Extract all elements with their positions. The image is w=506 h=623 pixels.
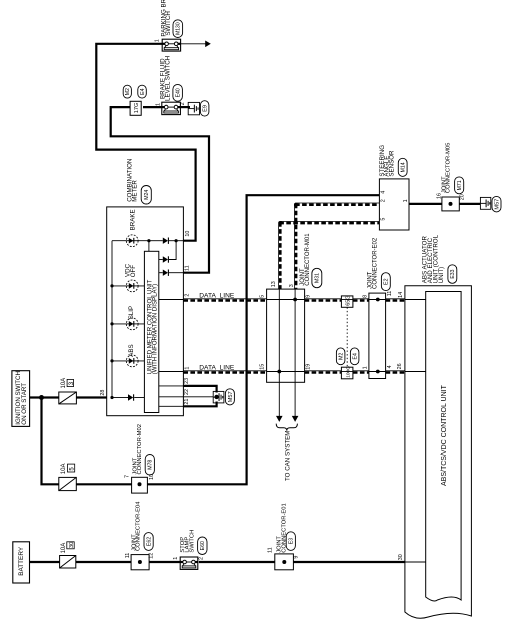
wire E62 to stop lamp switch (149, 561, 180, 563)
data line corner pin 2 branch (294, 203, 297, 206)
battery box (13, 542, 30, 583)
combination meter box (107, 207, 184, 416)
wire meter pin 22 to ground M57 (183, 396, 213, 398)
svg-text:1: 1 (184, 367, 190, 370)
svg-text:TO CAN SYSTEM: TO CAN SYSTEM (284, 431, 291, 481)
oval M78 (145, 455, 154, 476)
ground M57 (steering) (480, 197, 490, 209)
svg-text:9: 9 (306, 295, 312, 298)
svg-text:4: 4 (381, 191, 387, 194)
wire lamp bus vertical (111, 241, 113, 398)
node pin28 bus (110, 396, 113, 399)
svg-text:22: 22 (184, 389, 190, 395)
wire pin 1 inner box to meter edge (159, 371, 184, 373)
svg-text:13: 13 (271, 281, 277, 287)
svg-text:10A: 10A (61, 543, 67, 554)
svg-text:M57: M57 (495, 199, 501, 210)
wire battery to fuse 30 (30, 561, 60, 563)
data line CAN-L E02 to ABS pin 26 (386, 370, 405, 372)
svg-text:9: 9 (294, 556, 300, 559)
connector 17G (130, 101, 141, 115)
lamp SLIP (126, 318, 138, 330)
data line corner pin 5 branch (279, 221, 282, 224)
oval M57 (meter) (225, 389, 234, 405)
wire pin 28 with diode into inner box (112, 397, 128, 399)
svg-text:23: 23 (184, 378, 190, 384)
dotted pair link 65G-100G (346, 307, 348, 367)
node CAN-H at M01 (293, 298, 297, 302)
svg-text:M24: M24 (144, 190, 150, 200)
svg-text:CONNECTOR-E02: CONNECTOR-E02 (372, 237, 378, 289)
svg-text:17G: 17G (134, 103, 140, 114)
svg-text:1: 1 (155, 39, 161, 42)
wire brake fluid level switch pin 2 to ground E9 (180, 106, 190, 108)
svg-text:E2: E2 (384, 278, 390, 284)
oval M24 (141, 186, 151, 205)
connector 100G (341, 367, 353, 379)
svg-text:2: 2 (199, 557, 205, 560)
svg-text:11: 11 (125, 553, 131, 559)
wire brake fluid level switch pin 1 to 17G (143, 106, 162, 108)
svg-text:SWITCH: SWITCH (165, 11, 172, 35)
wire CAN branch 13 through M01 to arrow (278, 289, 280, 382)
wire ignition branch down to fuse 5 to joint connector M78 (42, 398, 59, 485)
oval M2 (17G) (123, 85, 131, 98)
wire ignition switch to fuse 3 to meter pin 28 (30, 396, 59, 398)
wire pin 23 inner box to meter edge (159, 385, 184, 387)
svg-text:DATA LINE: DATA LINE (199, 364, 235, 371)
data line sensor pin 5 branch (279, 220, 379, 222)
svg-text:1: 1 (363, 366, 369, 369)
ignition switch box (12, 371, 30, 427)
wire parking brake switch to combination meter pin 10 (96, 44, 195, 241)
wire M71 to ground M57 (459, 203, 480, 205)
wire pin 2 inner box to meter edge (159, 299, 184, 301)
svg-text:UNIT): UNIT) (438, 267, 445, 284)
oval M71 (455, 177, 464, 194)
svg-text:SENSOR: SENSOR (388, 150, 395, 177)
svg-text:2: 2 (184, 294, 190, 297)
svg-text:30: 30 (69, 542, 75, 548)
data line CAN-H M01 to 65G (305, 298, 342, 300)
svg-text:ABS: ABS (128, 344, 135, 356)
ABS actuator outer box (405, 286, 472, 618)
svg-text:5: 5 (381, 218, 387, 221)
wire brake lamp to pin 10 with diode (149, 240, 163, 242)
svg-text:BATTERY: BATTERY (18, 546, 25, 576)
oval E2 (381, 273, 390, 291)
fuse 10A 30 (60, 556, 76, 569)
svg-text:11: 11 (387, 291, 393, 297)
svg-text:20: 20 (460, 194, 466, 200)
svg-text:M14: M14 (401, 162, 407, 172)
brake fluid level switch (162, 102, 181, 114)
svg-text:SLIP: SLIP (128, 306, 135, 319)
diode row 2 to pin 10 (159, 259, 163, 261)
oval E3 (286, 532, 295, 551)
wire CAN branch through M01 to arrow (294, 289, 296, 382)
ground E9 (188, 102, 199, 114)
data line sensor pin 2 branch (295, 202, 379, 204)
svg-text:CONNECTOR-M02: CONNECTOR-M02 (137, 424, 143, 474)
joint connector M01 box (267, 289, 305, 382)
svg-text:E60: E60 (200, 541, 206, 550)
svg-text:11: 11 (184, 265, 190, 271)
svg-text:7: 7 (125, 475, 131, 478)
node diode junction right (175, 239, 178, 242)
wire M78 to steering angle sensor pin 4 (147, 195, 379, 484)
svg-text:ON OR START: ON OR START (21, 383, 28, 425)
svg-text:26: 26 (397, 363, 403, 369)
svg-text:LEVEL SWITCH: LEVEL SWITCH (165, 56, 172, 101)
wire 17G to combination meter pin 11 (111, 107, 209, 273)
svg-text:10: 10 (185, 231, 191, 237)
node slip bus (110, 322, 113, 325)
svg-text:M57: M57 (228, 391, 234, 402)
wire pin 22 inner box to meter edge (159, 396, 184, 398)
wire slip lamp row (112, 323, 144, 325)
svg-text:12: 12 (149, 553, 155, 559)
svg-text:11: 11 (268, 547, 274, 553)
connector 65G (341, 296, 353, 307)
svg-text:65G: 65G (346, 295, 352, 305)
wire fuse 30 to joint connector E62 (76, 561, 131, 563)
svg-text:4: 4 (387, 365, 393, 368)
svg-text:SWITCH: SWITCH (189, 530, 195, 553)
joint connector M05 box (442, 197, 459, 211)
data line CAN-L inside 100G (341, 371, 353, 373)
svg-text:BRAKE: BRAKE (129, 209, 136, 230)
svg-text:METER: METER (132, 180, 139, 202)
wire brake lamp row (112, 240, 149, 242)
parking brake switch (162, 39, 180, 51)
svg-text:M2: M2 (125, 88, 131, 95)
ground symbol (parking brake switch) (205, 41, 211, 48)
svg-text:E9: E9 (203, 105, 209, 112)
oval M2 (100G) (336, 348, 345, 365)
fuse 10A 3 (59, 392, 77, 404)
lamp BRAKE (126, 235, 138, 247)
svg-text:10A: 10A (61, 378, 67, 389)
svg-text:10: 10 (149, 474, 155, 480)
data line CAN-L M01 to 100G (305, 370, 342, 372)
oval E9 (200, 101, 209, 116)
node vdc bus (110, 284, 113, 287)
svg-text:E40: E40 (176, 88, 182, 97)
arrow to CAN system right (292, 416, 299, 422)
svg-text:8: 8 (363, 295, 369, 298)
stop lamp switch (180, 557, 198, 569)
node diode junction left (147, 239, 150, 242)
node ignition branch (39, 395, 44, 400)
data line CAN-H inside 65G (341, 299, 353, 301)
oval E4 (17G) (138, 85, 147, 98)
ABS inner control unit box (426, 292, 461, 602)
svg-text:10A: 10A (61, 464, 67, 475)
data line CAN-L inside E02 (369, 371, 386, 373)
svg-text:E4: E4 (140, 88, 146, 94)
svg-text:14: 14 (398, 292, 404, 298)
wire pin 30 inside ABS actuator (405, 561, 426, 563)
svg-text:3: 3 (289, 284, 295, 287)
svg-text:2: 2 (180, 102, 186, 105)
brace TO CAN SYSTEM (276, 424, 297, 431)
wire pin 14 inside ABS actuator (405, 299, 426, 301)
oval E62 (144, 533, 153, 551)
data line CAN-H 65G to E02 (353, 298, 369, 300)
node abs bus (110, 359, 113, 362)
svg-text:CONNECTOR-M01: CONNECTOR-M01 (305, 233, 311, 286)
svg-text:21: 21 (184, 399, 190, 405)
svg-text:30: 30 (398, 554, 404, 560)
svg-text:1: 1 (156, 103, 162, 106)
unified meter control unit box (144, 251, 158, 412)
wire junction to inner box top (148, 241, 150, 252)
svg-text:16: 16 (437, 193, 443, 199)
svg-text:19: 19 (306, 364, 312, 370)
oval M31 (312, 268, 322, 287)
lamp VDC OFF (126, 280, 138, 292)
svg-text:1: 1 (403, 199, 409, 202)
svg-text:M130: M130 (176, 22, 182, 35)
data line CAN-H inside E02 (369, 299, 386, 301)
fuse 10A 5 (59, 477, 77, 490)
svg-text:28: 28 (100, 390, 106, 396)
data line CAN-L inside M01 (267, 371, 305, 373)
svg-text:M78: M78 (148, 460, 154, 470)
node CAN-L at M01 (277, 370, 281, 374)
joint connector E02 box (369, 293, 386, 378)
svg-text:DATA LINE: DATA LINE (199, 292, 235, 299)
svg-text:M71: M71 (457, 180, 463, 190)
svg-text:E4: E4 (353, 353, 359, 359)
svg-text:(WITH INFORMATION DISPLAY): (WITH INFORMATION DISPLAY) (151, 284, 158, 375)
svg-text:E3: E3 (289, 538, 295, 544)
wire pin 21 inner box to meter edge (159, 405, 184, 407)
arrow to CAN system left (276, 416, 283, 422)
svg-text:2: 2 (381, 199, 387, 202)
oval M57 (steering) (492, 196, 501, 212)
svg-text:1: 1 (173, 557, 179, 560)
svg-text:ABS/TCS/VDC CONTROL UNIT: ABS/TCS/VDC CONTROL UNIT (441, 384, 448, 486)
wire meter pin 21 to ground M57 (183, 402, 216, 407)
node CAN-H at E02 (376, 298, 380, 302)
wire abs lamp row (112, 360, 144, 362)
oval M130 (173, 20, 183, 38)
oval E4 (100G) (350, 348, 359, 365)
svg-text:OFF: OFF (130, 265, 137, 278)
data line CAN-H E02 to ABS pin 14 (386, 298, 405, 300)
steering angle sensor box (379, 179, 409, 230)
wire E3 to ABS actuator pin 30 (293, 561, 405, 563)
wire vdc lamp row (112, 285, 144, 287)
svg-text:CONNECTOR-E04: CONNECTOR-E04 (135, 501, 141, 551)
node CAN-L at E02 (376, 370, 380, 374)
wire stop lamp switch to joint connector E3 (199, 561, 275, 563)
data line CAN-L 100G to E02 (353, 370, 369, 372)
svg-text:M31: M31 (315, 273, 321, 283)
joint connector M02 box (132, 477, 148, 493)
data line CAN-H meter pin 2 to joint connector M01 (183, 298, 266, 300)
oval E40 (173, 84, 183, 101)
oval M14 (398, 158, 407, 176)
diode row 3 to pin 11 (159, 272, 163, 274)
oval E60 (198, 537, 207, 555)
svg-text:100G: 100G (345, 366, 351, 378)
svg-text:15: 15 (259, 364, 265, 370)
data line CAN-L meter pin 1 to joint connector M01 (183, 370, 266, 372)
oval E33 (448, 265, 457, 284)
lamp ABS (126, 355, 138, 367)
svg-text:E33: E33 (450, 269, 456, 278)
svg-text:M2: M2 (339, 353, 345, 360)
joint connector E04 box (E62) (131, 555, 149, 570)
svg-text:5: 5 (260, 295, 266, 298)
wire sensor pin 1 to joint connector M71 (409, 203, 442, 205)
svg-text:E62: E62 (146, 537, 152, 546)
wire pin 26 inside ABS actuator (405, 371, 426, 373)
joint connector E01 box (E3) (275, 554, 294, 570)
data line CAN-H inside M01 (267, 299, 305, 301)
svg-text:CONNECTOR-M05: CONNECTOR-M05 (446, 143, 452, 193)
wire meter pin 23 to ground M57 (183, 386, 216, 393)
ground M57 (meter) (213, 391, 224, 403)
wire parking brake switch to ground (181, 43, 206, 45)
